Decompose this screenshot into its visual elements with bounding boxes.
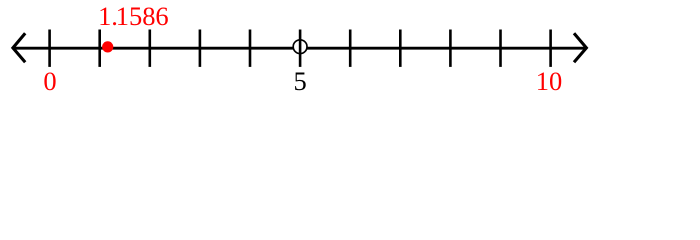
tick 0 bbox=[48, 30, 51, 67]
tick 4 bbox=[249, 30, 252, 67]
svg-text:1.1586: 1.1586 bbox=[98, 1, 169, 31]
tick 2 bbox=[149, 30, 152, 67]
tick 7 bbox=[399, 30, 402, 67]
svg-text:10: 10 bbox=[536, 66, 563, 96]
tick 6 bbox=[349, 30, 352, 67]
tick 10 bbox=[549, 30, 552, 67]
tick 9 bbox=[499, 30, 502, 67]
svg-text:0: 0 bbox=[43, 66, 56, 96]
tick 1 bbox=[98, 30, 101, 67]
tick 3 bbox=[199, 30, 202, 67]
filled point at 1.1586 bbox=[102, 41, 113, 52]
open circle at 5 bbox=[293, 40, 307, 54]
tick 5 bbox=[299, 30, 302, 67]
tick 8 bbox=[449, 30, 452, 67]
svg-text:5: 5 bbox=[293, 66, 306, 96]
tick 5 overlay through circle bbox=[299, 40, 302, 54]
right arrowhead bbox=[574, 33, 586, 62]
number line axis bbox=[14, 47, 587, 50]
left arrowhead bbox=[13, 33, 25, 62]
